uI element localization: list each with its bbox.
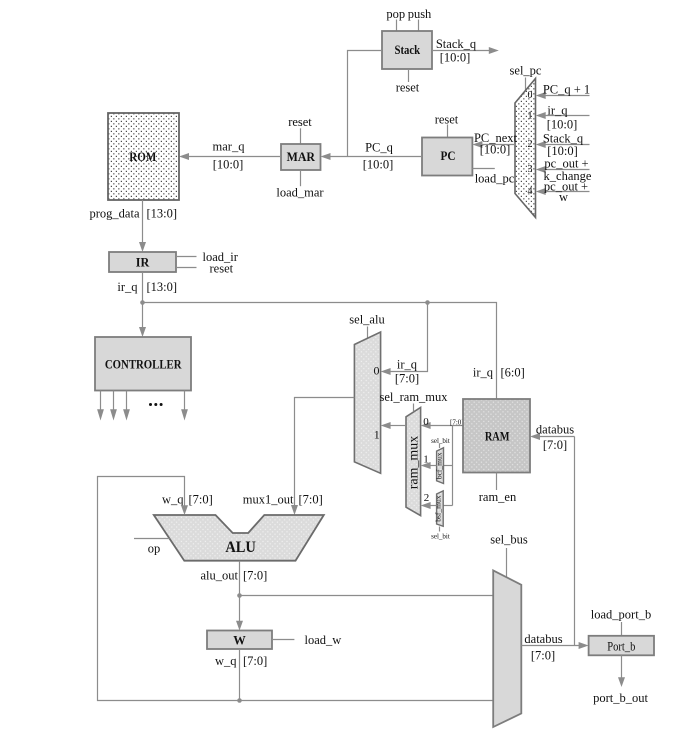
wire pop stub <box>396 20 398 32</box>
svg-text:[10:0]: [10:0] <box>440 51 471 65</box>
svg-text:port_b_out: port_b_out <box>593 691 648 705</box>
svg-text:w: w <box>559 190 568 204</box>
wire PC_q <box>321 153 423 160</box>
svg-text:ir_q: ir_q <box>117 280 138 294</box>
wire alu_out <box>236 561 493 631</box>
svg-text:mar_q: mar_q <box>213 140 246 154</box>
wire port_b_out <box>618 655 625 687</box>
svg-text:2: 2 <box>528 139 533 150</box>
wire bit feeder vertical <box>452 426 454 506</box>
svg-text:0: 0 <box>374 364 380 378</box>
wire sel_bit top stub <box>439 444 441 448</box>
block W <box>207 631 272 650</box>
wire MAR reset stub <box>300 128 302 144</box>
wire sel_bus stub <box>506 548 508 578</box>
svg-text:[10:0]: [10:0] <box>213 157 244 171</box>
svg-text:W: W <box>233 634 246 648</box>
svg-text:[7:0]: [7:0] <box>243 569 267 583</box>
svg-text:[13:0]: [13:0] <box>147 280 178 294</box>
svg-text:reset: reset <box>396 81 420 95</box>
wire controller out 1 <box>97 391 104 421</box>
wire RAM data to ram_mux input 0 <box>421 422 463 429</box>
junction ir_q <box>140 300 145 305</box>
svg-text:Stack: Stack <box>395 43 421 57</box>
svg-text:Port_b: Port_b <box>607 640 635 654</box>
wire sel_ram_mux stub <box>413 404 415 412</box>
block ROM <box>108 113 179 200</box>
mux ram_mux <box>406 408 421 516</box>
wire push stub <box>418 20 420 32</box>
svg-text:[13:0]: [13:0] <box>147 207 178 221</box>
svg-text:[10:0]: [10:0] <box>480 143 511 157</box>
wire databus into RAM <box>530 433 575 440</box>
svg-text:sel_bit: sel_bit <box>431 437 450 445</box>
wire PC_next <box>472 141 515 148</box>
wire w_q feedback <box>98 477 494 701</box>
svg-text:[7:0]: [7:0] <box>395 372 419 386</box>
svg-text:prog_data: prog_data <box>90 207 140 221</box>
wire stack reset stub <box>408 69 410 82</box>
wire sel_pc input 2 <box>536 141 590 148</box>
svg-text:ir_q: ir_q <box>397 358 418 372</box>
svg-text:[7:0]: [7:0] <box>189 493 213 507</box>
wire sel_pc input 1 <box>536 112 590 119</box>
svg-text:[7:0]: [7:0] <box>299 493 323 507</box>
svg-text:1: 1 <box>528 111 533 122</box>
wire stack input from PC_q <box>348 51 383 157</box>
svg-text:ram_mux: ram_mux <box>406 436 421 490</box>
svg-text:mux1_out: mux1_out <box>243 493 294 507</box>
block RAM <box>463 399 530 473</box>
svg-text:op: op <box>148 542 161 556</box>
svg-text:[7:0]: [7:0] <box>243 654 267 668</box>
wire sel_alu stub <box>367 327 369 339</box>
svg-text:4: 4 <box>528 186 533 197</box>
svg-text:ram_en: ram_en <box>479 490 517 504</box>
wire bsf output to ram_mux input 2 <box>421 502 437 509</box>
svg-text:load_port_b: load_port_b <box>591 608 651 622</box>
svg-text:ir_q: ir_q <box>547 104 568 118</box>
wire sel_bit bottom stub <box>439 527 441 532</box>
svg-text:PC_q + 1: PC_q + 1 <box>543 83 590 97</box>
wire controller out 2 <box>110 391 117 421</box>
wire ram_en stub <box>496 473 498 491</box>
wire load_w stub <box>272 639 294 641</box>
wire databus output <box>521 642 588 649</box>
wire controller out 4 <box>181 391 188 421</box>
svg-text:ir_q: ir_q <box>473 366 494 380</box>
wire IR reset stub <box>176 267 197 269</box>
alu ALU <box>154 515 324 561</box>
wire sel_pc input 3 <box>536 166 590 173</box>
svg-text:databus: databus <box>536 423 574 437</box>
svg-text:PC: PC <box>441 149 456 163</box>
svg-text:load_pc: load_pc <box>475 172 515 186</box>
svg-text:[10:0]: [10:0] <box>547 118 578 132</box>
svg-text:MAR: MAR <box>287 150 316 164</box>
svg-text:bsf_mux: bsf_mux <box>434 495 443 521</box>
wire sel_alu output to ALU <box>291 398 354 516</box>
svg-text:alu_out: alu_out <box>201 569 239 583</box>
svg-text:ROM: ROM <box>129 150 156 164</box>
wire w_q down <box>239 649 241 701</box>
wire sel_pc input 4 <box>536 188 590 195</box>
wire bcf output to ram_mux input 1 <box>421 462 437 469</box>
junction alu_out <box>237 593 242 598</box>
svg-text:pop: pop <box>386 7 405 21</box>
wire op <box>134 538 170 540</box>
svg-text:load_mar: load_mar <box>276 186 324 200</box>
svg-text:3: 3 <box>528 164 533 175</box>
svg-text:0: 0 <box>528 90 533 101</box>
wire load_pc stub <box>472 168 494 170</box>
svg-text:[7:0]: [7:0] <box>531 649 555 663</box>
svg-text:push: push <box>408 7 432 21</box>
svg-text:Stack_q: Stack_q <box>436 37 477 51</box>
junction w_q <box>237 698 242 703</box>
wire controller out 3 <box>123 391 130 421</box>
svg-text:0: 0 <box>423 416 429 428</box>
svg-text:IR: IR <box>136 256 150 270</box>
wire databus vertical <box>574 437 576 646</box>
wire ir_q down to controller <box>139 272 146 337</box>
svg-text:PC_q: PC_q <box>365 141 394 155</box>
wire sel_pc stub <box>525 78 527 91</box>
svg-text:load_w: load_w <box>305 633 342 647</box>
svg-text:RAM: RAM <box>485 429 510 443</box>
wire bsf input stub <box>443 505 452 507</box>
label dots <box>149 403 163 406</box>
wire PC reset stub <box>447 125 449 138</box>
block PC <box>422 138 472 176</box>
svg-text:sel_pc: sel_pc <box>510 64 542 78</box>
svg-text:databus: databus <box>524 632 562 646</box>
block Stack <box>382 31 432 69</box>
svg-text:[7:0]: [7:0] <box>543 438 567 452</box>
junction ir_q branch <box>425 300 430 305</box>
svg-text:[7:0]: [7:0] <box>450 419 464 427</box>
svg-text:w_q: w_q <box>162 493 184 507</box>
svg-text:reset: reset <box>210 262 234 276</box>
svg-text:sel_ram_mux: sel_ram_mux <box>379 390 448 404</box>
block Port_b <box>589 636 654 656</box>
svg-text:1: 1 <box>423 454 429 466</box>
wire load_mar stub <box>300 170 302 186</box>
mux sel_alu <box>354 332 380 473</box>
svg-text:w_q: w_q <box>215 654 237 668</box>
svg-text:sel_alu: sel_alu <box>349 313 385 327</box>
svg-text:1: 1 <box>374 428 380 442</box>
wire ir_q branch to sel_alu <box>381 303 428 376</box>
svg-text:[6:0]: [6:0] <box>501 366 525 380</box>
svg-text:sel_bus: sel_bus <box>490 533 528 547</box>
block MAR <box>281 144 321 170</box>
svg-text:[10:0]: [10:0] <box>363 157 394 171</box>
wire bcf input stub <box>444 465 453 467</box>
wire prog_data <box>139 200 146 252</box>
svg-text:CONTROLLER: CONTROLLER <box>105 357 182 371</box>
wire mar_q <box>179 153 281 160</box>
svg-text:2: 2 <box>424 492 430 504</box>
svg-text:ALU: ALU <box>225 539 256 556</box>
wire ir_q bus horizontal <box>143 303 497 400</box>
mux sel_pc <box>515 79 536 218</box>
svg-text:reset: reset <box>435 113 459 127</box>
wire ram_mux output to sel_alu input 1 <box>381 422 406 429</box>
mux bcf_mux <box>435 448 444 484</box>
wire load_port_b stub <box>621 622 623 636</box>
wire Stack_q output <box>432 47 499 54</box>
block IR <box>109 252 176 272</box>
mux sel_bus <box>493 570 521 727</box>
svg-text:reset: reset <box>288 115 312 129</box>
mux bsf_mux <box>434 491 444 526</box>
svg-text:sel_bit: sel_bit <box>431 533 450 541</box>
wire sel_pc input 0 <box>536 92 590 99</box>
block CONTROLLER <box>95 337 191 391</box>
wire load_ir stub <box>176 256 197 258</box>
